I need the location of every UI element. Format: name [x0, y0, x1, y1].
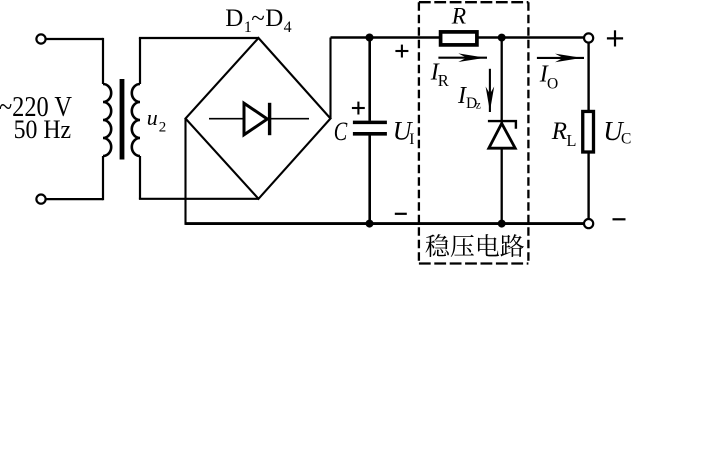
wire bottom-left horizontal [46, 198, 103, 200]
label IO [539, 61, 559, 92]
svg-text:R: R [451, 3, 466, 29]
wire secondary bottom vertical [139, 156, 141, 199]
current arrow IO [537, 54, 584, 63]
label UC [603, 116, 631, 147]
label RL [551, 118, 577, 150]
svg-text:u: u [147, 105, 158, 130]
wire bottom rail [186, 222, 585, 225]
wire top-left horizontal [46, 38, 103, 40]
capacitor C bottom plate [353, 132, 387, 136]
label IDz [457, 83, 481, 112]
wire capacitor top [368, 38, 371, 121]
plus sign UI top [395, 45, 408, 58]
current arrow IDz [486, 69, 495, 112]
svg-text:C: C [621, 130, 631, 147]
node junction bottom capacitor [366, 220, 374, 228]
wire primary bottom vertical [102, 156, 104, 200]
wire RL bottom [587, 152, 589, 219]
wire secondary top to bridge apex [139, 37, 259, 39]
bridge rectifier D1~D4 diamond [186, 38, 331, 199]
zener diode Dz cathode bar [488, 121, 516, 129]
AC input terminal top-left [36, 34, 45, 43]
svg-text:R: R [438, 71, 449, 90]
resistor RL [583, 111, 594, 152]
svg-text:I: I [409, 131, 414, 148]
wire capacitor bottom [368, 136, 371, 224]
label IR [430, 60, 449, 90]
svg-text:50 Hz: 50 Hz [14, 114, 72, 144]
svg-text:~: ~ [251, 5, 265, 32]
transformer secondary winding [132, 84, 140, 156]
capacitor C top plate [353, 121, 387, 125]
wire primary top vertical [102, 38, 104, 84]
current arrow IR [438, 53, 487, 62]
svg-text:L: L [566, 131, 576, 150]
label regulator circuit (CJK) [426, 234, 525, 257]
svg-text:O: O [547, 75, 558, 92]
AC input terminal bottom-left [36, 195, 45, 204]
svg-text:4: 4 [284, 19, 292, 36]
svg-text:R: R [551, 118, 567, 145]
capacitor polarity plus [352, 102, 365, 115]
transformer core [120, 79, 125, 160]
node junction top capacitor [366, 34, 374, 42]
wire bridge left vertex down [184, 119, 186, 225]
output terminal top-right [584, 33, 593, 42]
resistor R [441, 32, 477, 45]
svg-text:D: D [225, 5, 243, 32]
plus sign output [607, 30, 623, 46]
minus sign UI bottom [395, 213, 407, 215]
wire secondary bottom to bridge bottom vertex [139, 198, 259, 200]
label UI [393, 116, 415, 148]
dashed box regulator [419, 2, 529, 263]
wire secondary top vertical [139, 38, 141, 84]
wire RL top [587, 43, 589, 111]
minus sign output [613, 218, 626, 220]
svg-text:2: 2 [159, 120, 167, 136]
output terminal bottom-right [584, 219, 593, 228]
bridge diode cathode bar [268, 103, 271, 135]
label D1~D4 [225, 5, 291, 36]
label ~220 V 50 Hz [0, 92, 72, 144]
label u2 [147, 105, 167, 136]
node junction top zener [498, 34, 506, 42]
wire zener branch [501, 38, 503, 224]
zener diode Dz triangle [489, 123, 515, 148]
wire bridge right vertex up [329, 38, 331, 119]
wire top rail [331, 36, 585, 39]
transformer primary winding [103, 84, 111, 156]
svg-text:z: z [476, 97, 481, 111]
bridge internal line [209, 118, 309, 120]
node junction bottom zener [498, 220, 506, 228]
svg-text:D: D [265, 5, 283, 32]
bridge diode triangle [244, 103, 267, 135]
svg-text:C: C [334, 116, 348, 146]
